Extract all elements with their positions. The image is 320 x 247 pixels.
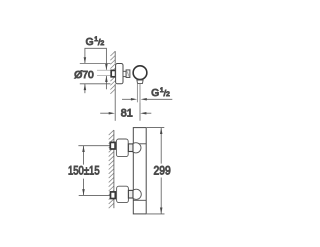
G1/2 right leader lines xyxy=(122,98,132,100)
dimension D70 extension lines xyxy=(80,63,111,65)
D70 lower arrow lines xyxy=(84,84,86,93)
wall hatch front view xyxy=(109,130,114,208)
dimension 150+-15 xyxy=(83,146,85,165)
wall surface line front view xyxy=(113,130,115,208)
lower fitting: connector front xyxy=(128,190,133,198)
boss circle lower xyxy=(131,189,141,199)
dimension 299 line xyxy=(160,128,162,164)
svg-text:Ø70: Ø70 xyxy=(74,69,94,81)
dimension 299 extension top xyxy=(147,127,165,129)
lower fitting: escutcheon front xyxy=(117,186,129,202)
extension line right for 81 xyxy=(139,102,141,121)
lower fitting: union nut front xyxy=(111,192,116,199)
connector A (side view) xyxy=(123,71,126,76)
union nut (side view) xyxy=(111,70,115,76)
svg-text:G1/2: G1/2 xyxy=(86,36,105,48)
wall hatch side view xyxy=(110,51,115,94)
wall surface line side view xyxy=(114,51,116,63)
valve body circle (side view) xyxy=(133,66,147,80)
dimension G1/2 top bracket xyxy=(85,48,107,70)
extension line 150 upper xyxy=(78,145,110,147)
union pipe (side view inlet) xyxy=(97,69,111,71)
dimension 299 extension bottom xyxy=(147,213,165,215)
upper fitting: union nut front xyxy=(110,142,115,149)
svg-text:81: 81 xyxy=(121,108,133,120)
upper fitting: escutcheon front xyxy=(116,139,128,157)
body (front view) xyxy=(133,128,146,214)
outlet pipe lines xyxy=(136,83,138,102)
outlet collar below circle xyxy=(137,80,143,83)
upper fitting: connector front xyxy=(128,144,133,152)
body crossline lower xyxy=(133,199,146,201)
svg-text:G1/2: G1/2 xyxy=(151,87,170,99)
svg-text:150±15: 150±15 xyxy=(68,165,100,177)
svg-text:299: 299 xyxy=(154,164,171,178)
connector nut B (side view) xyxy=(126,70,130,78)
escutcheon (side view) xyxy=(116,64,123,84)
extension line 150 lower xyxy=(79,194,111,196)
body crossline upper xyxy=(133,143,146,145)
dimension 81 xyxy=(100,112,109,114)
boss circle upper xyxy=(131,143,141,153)
